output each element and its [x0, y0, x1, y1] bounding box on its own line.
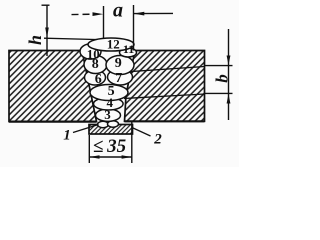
upper extension — [205, 65, 233, 67]
right arrow — [134, 12, 145, 16]
top tick — [42, 4, 50, 6]
weld pass 4 — [94, 98, 124, 110]
svg-text:b: b — [213, 74, 232, 83]
weld pass 11 — [120, 48, 137, 57]
arrow down — [227, 56, 231, 66]
svg-text:9: 9 — [115, 56, 122, 71]
left plate — [9, 51, 97, 122]
leader 1 — [73, 125, 99, 133]
lower extension — [205, 92, 233, 94]
dimension <=35 — [89, 121, 132, 163]
down arrow — [45, 28, 49, 38]
svg-text:6: 6 — [95, 72, 102, 87]
svg-text:1: 1 — [63, 128, 71, 144]
weld pass 7 — [108, 69, 133, 85]
leader 2 — [132, 128, 151, 137]
backing strip — [89, 125, 133, 135]
left plate bottom edge — [9, 120, 97, 122]
dashed lead-in — [72, 13, 93, 15]
svg-text:12: 12 — [107, 37, 120, 52]
left arrow — [93, 12, 104, 16]
svg-text:7: 7 — [115, 71, 122, 86]
right extension — [131, 121, 133, 163]
right lead-out — [134, 12, 173, 14]
arrow up — [227, 94, 231, 104]
dimension a — [72, 5, 174, 51]
weld pass 12 — [88, 38, 134, 51]
weld pass 9 — [106, 56, 134, 75]
layer line upper — [127, 67, 205, 72]
right plate — [124, 51, 205, 122]
arrow left — [89, 155, 99, 159]
weld pass 2 (root right) — [108, 121, 119, 127]
svg-text:11: 11 — [123, 42, 134, 56]
weld pass 5 — [90, 85, 128, 101]
layer line lower — [124, 94, 205, 99]
vertical line — [46, 5, 48, 56]
weld pass 10 — [80, 44, 101, 59]
right extension — [133, 5, 135, 51]
svg-text:3: 3 — [104, 107, 111, 122]
dimension h tangent line — [44, 38, 100, 39]
arrow right — [122, 155, 132, 159]
svg-text:≤ 35: ≤ 35 — [93, 136, 127, 157]
left extension — [103, 6, 105, 39]
svg-text:8: 8 — [92, 57, 99, 72]
pass labels — [87, 37, 135, 123]
svg-text:a: a — [113, 0, 123, 22]
weld pass 6 — [85, 70, 106, 85]
left extension — [88, 135, 90, 163]
svg-text:h: h — [25, 35, 45, 45]
dimension h — [42, 5, 50, 56]
vertical line — [228, 29, 230, 120]
right plate bottom edge — [125, 120, 205, 122]
dimension line — [89, 156, 132, 158]
svg-text:2: 2 — [153, 132, 162, 148]
dimension b — [205, 29, 233, 120]
weld pass 1 (root left) — [98, 121, 109, 127]
weld pass 8 — [84, 56, 107, 74]
weld pass 3 — [96, 109, 121, 121]
